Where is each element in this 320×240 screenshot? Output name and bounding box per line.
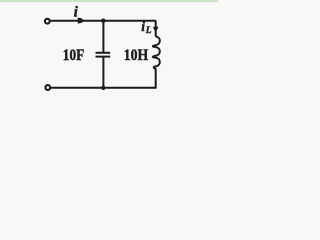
top green strip — [0, 0, 218, 2]
terminal (open circle, bottom-left) — [45, 85, 50, 90]
current arrow i (on top wire, pointing right) — [78, 19, 82, 23]
wire right vertical (inductor to bottom) — [155, 69, 157, 89]
svg-text:10H: 10H — [124, 47, 149, 64]
wire capacitor branch lower — [102, 57, 104, 88]
wire right vertical (top segment to inductor) — [155, 21, 157, 37]
inductor L (10H) coil — [153, 37, 160, 69]
wire top horizontal — [50, 20, 156, 22]
wire bottom horizontal — [50, 87, 156, 89]
svg-text:10F: 10F — [63, 47, 85, 64]
current arrow iL (on inductor wire, pointing down) — [154, 27, 158, 31]
svg-text:i: i — [74, 5, 78, 21]
capacitor C (10F) top plate — [96, 52, 111, 54]
capacitor C (10F) bottom plate — [96, 56, 111, 58]
node junction top — [101, 19, 105, 23]
node junction bottom — [101, 86, 105, 90]
wire capacitor branch upper — [102, 21, 104, 53]
terminal (open circle, top-left) — [45, 19, 50, 24]
svg-text:i: i — [141, 19, 145, 34]
svg-text:L: L — [145, 26, 152, 36]
